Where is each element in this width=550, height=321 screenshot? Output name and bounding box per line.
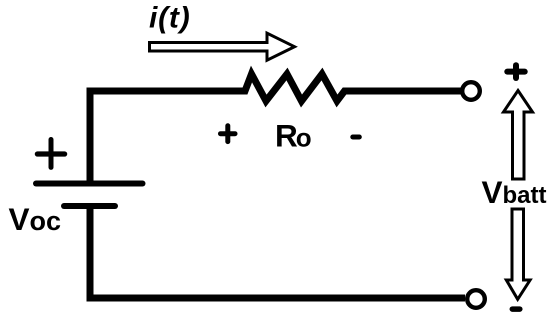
- svg-text:Ro: Ro: [275, 117, 312, 153]
- svg-text:i(t): i(t): [149, 2, 191, 35]
- svg-text:Voc: Voc: [9, 201, 62, 237]
